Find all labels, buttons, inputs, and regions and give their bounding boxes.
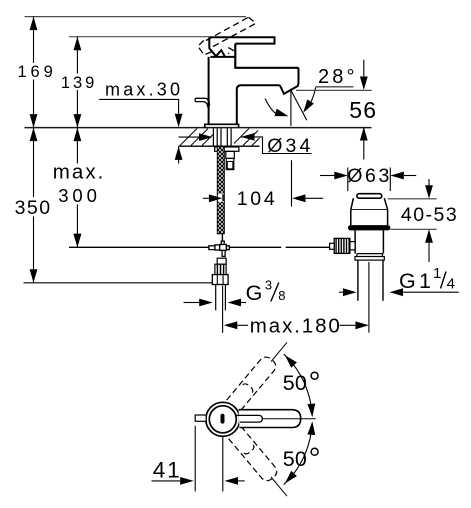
counter bottom line	[179, 145, 260, 147]
svg-text:350: 350	[15, 197, 51, 219]
40-53 dimension	[388, 198, 437, 200]
body below flange	[355, 230, 383, 253]
horizontal pop-up rod	[69, 246, 209, 248]
svg-text:G: G	[246, 281, 263, 305]
41 dimension	[194, 426, 196, 492]
upper 50deg arc	[284, 354, 312, 414]
svg-text:169: 169	[18, 63, 53, 81]
svg-text:40-53: 40-53	[401, 204, 457, 226]
drain knob disc	[357, 194, 382, 199]
step + collar	[357, 254, 383, 257]
Ø34 dimension	[179, 136, 200, 138]
56 top reference line	[296, 89, 372, 91]
56 dimension	[363, 60, 365, 77]
svg-text:Ø34: Ø34	[267, 135, 310, 157]
drain centre extension line	[368, 262, 370, 333]
dimension line x33.5 (169 / 350)	[33, 17, 35, 283]
spout underside with rounded corner into column	[237, 85, 280, 124]
Ø63 dimension	[347, 168, 349, 192]
dimension line x77.4 (139 / max.300)	[76, 37, 78, 248]
lever bar	[209, 37, 274, 43]
104 dimension	[203, 197, 209, 199]
lower 50deg arc	[284, 425, 312, 485]
thin pull rod below shank	[221, 234, 223, 241]
inner ring	[209, 406, 236, 433]
seal flange (black)	[348, 225, 391, 230]
faucet body outline	[195, 37, 298, 127]
dashed handle down 50deg	[228, 426, 280, 483]
svg-text:41: 41	[153, 457, 180, 482]
flex hose connector	[217, 258, 226, 264]
cartridge slot	[221, 414, 225, 424]
spout right edge + beak	[280, 68, 299, 94]
reference line: lever level	[69, 36, 209, 38]
svg-text:50: 50	[283, 371, 307, 395]
tailpipe	[357, 260, 359, 301]
rod guide bracket	[226, 151, 235, 158]
pull rod (top view)	[195, 415, 206, 421]
side knob (knurled)	[350, 242, 355, 250]
svg-text:300: 300	[58, 185, 97, 206]
counter hatching	[180, 129, 260, 146]
centreline right	[262, 418, 316, 420]
svg-text:Ø63: Ø63	[347, 165, 389, 187]
svg-text:139: 139	[61, 74, 94, 92]
column left edge	[208, 57, 210, 124]
reference line: handle-tip level (top)	[25, 16, 247, 18]
svg-text:28°: 28°	[318, 66, 355, 88]
counter top line	[25, 127, 372, 129]
stream curved arrow right	[310, 87, 316, 105]
svg-text:1: 1	[433, 265, 441, 282]
svg-text:4: 4	[447, 276, 455, 293]
G3/8 dimension	[184, 302, 200, 304]
lever inner slot	[236, 415, 262, 422]
outer ring	[206, 402, 240, 436]
taper below disc	[351, 198, 388, 209]
svg-text:8: 8	[278, 288, 285, 303]
body right edge above spout	[235, 44, 298, 68]
dashed handle (raised position)	[198, 17, 256, 55]
washer under counter	[215, 147, 239, 151]
stream curved arrow left	[265, 99, 278, 115]
svg-text:56: 56	[349, 97, 376, 123]
svg-text:G1: G1	[399, 269, 431, 293]
dashed handle up 50deg	[227, 354, 279, 411]
pivot wedge	[209, 37, 235, 57]
hoses	[215, 285, 217, 311]
shank through counter	[213, 128, 231, 146]
water stream: vertical ref + 28deg stream line	[290, 90, 292, 126]
svg-text:104: 104	[237, 188, 275, 210]
solid lever (top view)	[239, 410, 301, 428]
pull rod hook	[195, 98, 209, 107]
max.180 dimension	[224, 321, 238, 329]
svg-text:max.180: max.180	[250, 315, 340, 338]
svg-text:50: 50	[283, 447, 307, 471]
svg-text:3: 3	[265, 278, 272, 293]
bottom level line (350)	[24, 282, 213, 284]
faucet centre extension line	[222, 286, 224, 333]
base flange	[205, 124, 239, 127]
threaded shank (knurled)	[217, 146, 224, 234]
pop-up linkage clamp	[209, 241, 229, 256]
50deg leader rays	[271, 342, 287, 361]
